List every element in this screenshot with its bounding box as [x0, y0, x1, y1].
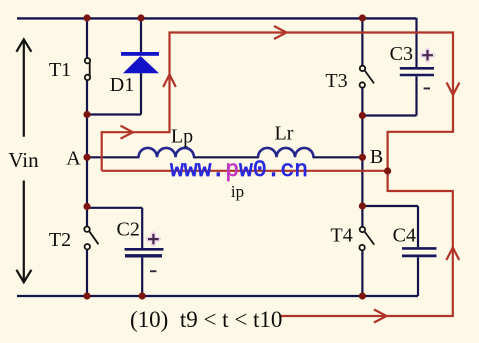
wire: D1 branch upper vertical	[140, 18, 142, 53]
transistor T3 switch arm	[365, 70, 374, 83]
svg-text:Vin: Vin	[8, 148, 39, 172]
wire: A to Lp	[87, 156, 140, 158]
wire: C3 branch horizontal to right rail	[362, 114, 416, 116]
red arrow right (left loop horizontal)	[121, 126, 134, 139]
transistor T4 switch arm	[365, 232, 375, 245]
svg-text:T2: T2	[49, 229, 71, 251]
red arrow right (bottom run)	[374, 310, 387, 323]
svg-text:T4: T4	[330, 225, 352, 247]
svg-text:B: B	[370, 146, 383, 168]
svg-text:C2: C2	[117, 219, 140, 241]
red arrow up (D1 side riser)	[163, 75, 176, 88]
capacitor C4 top plate	[402, 247, 437, 250]
junction dot top-right	[359, 14, 366, 21]
capacitor C2 bottom plate	[125, 254, 162, 257]
transistor T3 switch contacts	[360, 66, 365, 71]
svg-text:(10) t9 < t < t10: (10) t9 < t < t10	[130, 307, 282, 332]
node A dot	[83, 154, 90, 161]
transistor T2 switch contacts	[84, 227, 89, 232]
wire: right vertical rail (between T3 and T4)	[361, 88, 363, 228]
wire: Lp to Lr	[193, 156, 259, 158]
wire: left vertical rail (below T2)	[86, 249, 88, 296]
junction dot right mid (C3 return)	[359, 112, 366, 119]
capacitor C3 bottom plate	[400, 74, 434, 77]
wire: top bus	[17, 17, 417, 19]
junction dot bottom-left	[83, 292, 90, 299]
svg-text:ip: ip	[231, 182, 244, 201]
wire: right vertical rail (upper, above T3)	[361, 18, 363, 66]
wire: D1 branch lower vertical	[140, 73, 142, 115]
C2 plus sign	[148, 234, 159, 244]
diode D1 triangle (anode, pointing up)	[123, 56, 159, 73]
C3 minus sign	[424, 88, 430, 90]
svg-text:T1: T1	[49, 59, 71, 81]
capacitor C4 bottom plate	[402, 254, 437, 257]
wire: Lr to B	[313, 156, 363, 158]
wire: C4 branch vertical lower	[417, 257, 419, 296]
wire: C4 branch vertical upper	[417, 206, 419, 247]
wire: bottom bus	[17, 295, 418, 297]
svg-text:C3: C3	[390, 43, 413, 65]
wire: C3 branch vertical lower	[415, 76, 417, 115]
svg-text:Lp: Lp	[171, 126, 193, 148]
red current path: ip return line	[102, 170, 388, 172]
transistor T1 switch contacts	[85, 58, 90, 63]
junction dot right (C4 branch)	[359, 202, 366, 209]
junction dot bottom C2	[139, 292, 146, 299]
inductor Lr	[258, 148, 314, 157]
wire: left vertical rail (upper, above T1)	[86, 18, 88, 58]
svg-text:C4: C4	[393, 225, 416, 247]
red arrow up (right bottom riser)	[446, 248, 459, 261]
transistor T4 switch contacts	[360, 227, 365, 232]
junction dot left mid (D1 return)	[83, 111, 90, 118]
svg-text:Lr: Lr	[275, 123, 294, 145]
svg-text:T3: T3	[325, 70, 347, 92]
wire: left vertical rail (between T1 and T2)	[86, 80, 88, 227]
wire: right vertical rail (below T4)	[361, 250, 363, 296]
wire: C4 branch horizontal	[362, 205, 418, 207]
junction dot bottom-right	[359, 292, 366, 299]
svg-text:D1: D1	[110, 74, 134, 96]
wire: C2 branch vertical lower	[141, 258, 143, 296]
junction dot top D1	[137, 14, 144, 21]
capacitor C3 top plate	[400, 67, 434, 70]
inductor Lp	[139, 148, 195, 157]
wire: C3 branch vertical upper (from top bus corner)	[415, 18, 417, 67]
red arrow down (right top drop)	[447, 83, 460, 96]
C3 plus sign	[422, 50, 433, 60]
junction dot left (C2 branch)	[83, 203, 90, 210]
node B dot	[359, 154, 366, 161]
svg-text:www.pw0.cn: www.pw0.cn	[170, 157, 308, 183]
wire: C2 branch vertical upper	[141, 208, 143, 248]
red current path: left riser from ip line	[102, 33, 453, 317]
transistor T2 switch arm	[89, 231, 98, 244]
wire: D1 branch horizontal to left rail	[87, 113, 141, 115]
C2 minus sign	[150, 270, 156, 272]
transistor T1 switch arm	[89, 62, 91, 75]
red arrow right (top run)	[274, 26, 287, 39]
Vin up arrow	[23, 40, 25, 137]
junction dot top-left	[83, 14, 90, 21]
capacitor C2 top plate	[125, 248, 164, 251]
wire: C2 branch horizontal	[87, 207, 142, 209]
diode D1 cathode bar	[121, 52, 159, 56]
svg-text:A: A	[66, 148, 81, 170]
Vin down arrow	[23, 181, 25, 282]
red junction node	[384, 167, 391, 174]
